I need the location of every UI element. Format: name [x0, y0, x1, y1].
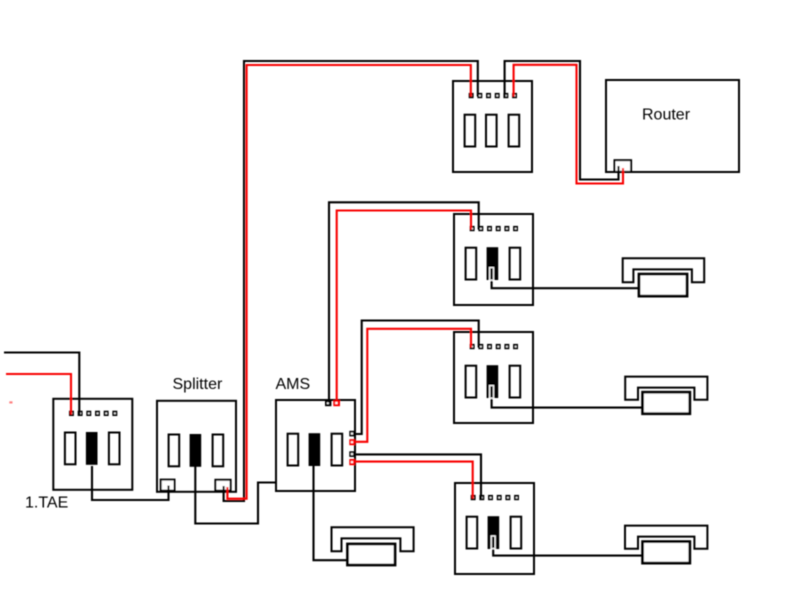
svg-text:AMS: AMS — [276, 376, 311, 393]
svg-text:Splitter: Splitter — [173, 376, 223, 393]
svg-text:Router: Router — [642, 107, 691, 124]
svg-text:1.TAE: 1.TAE — [25, 495, 68, 512]
